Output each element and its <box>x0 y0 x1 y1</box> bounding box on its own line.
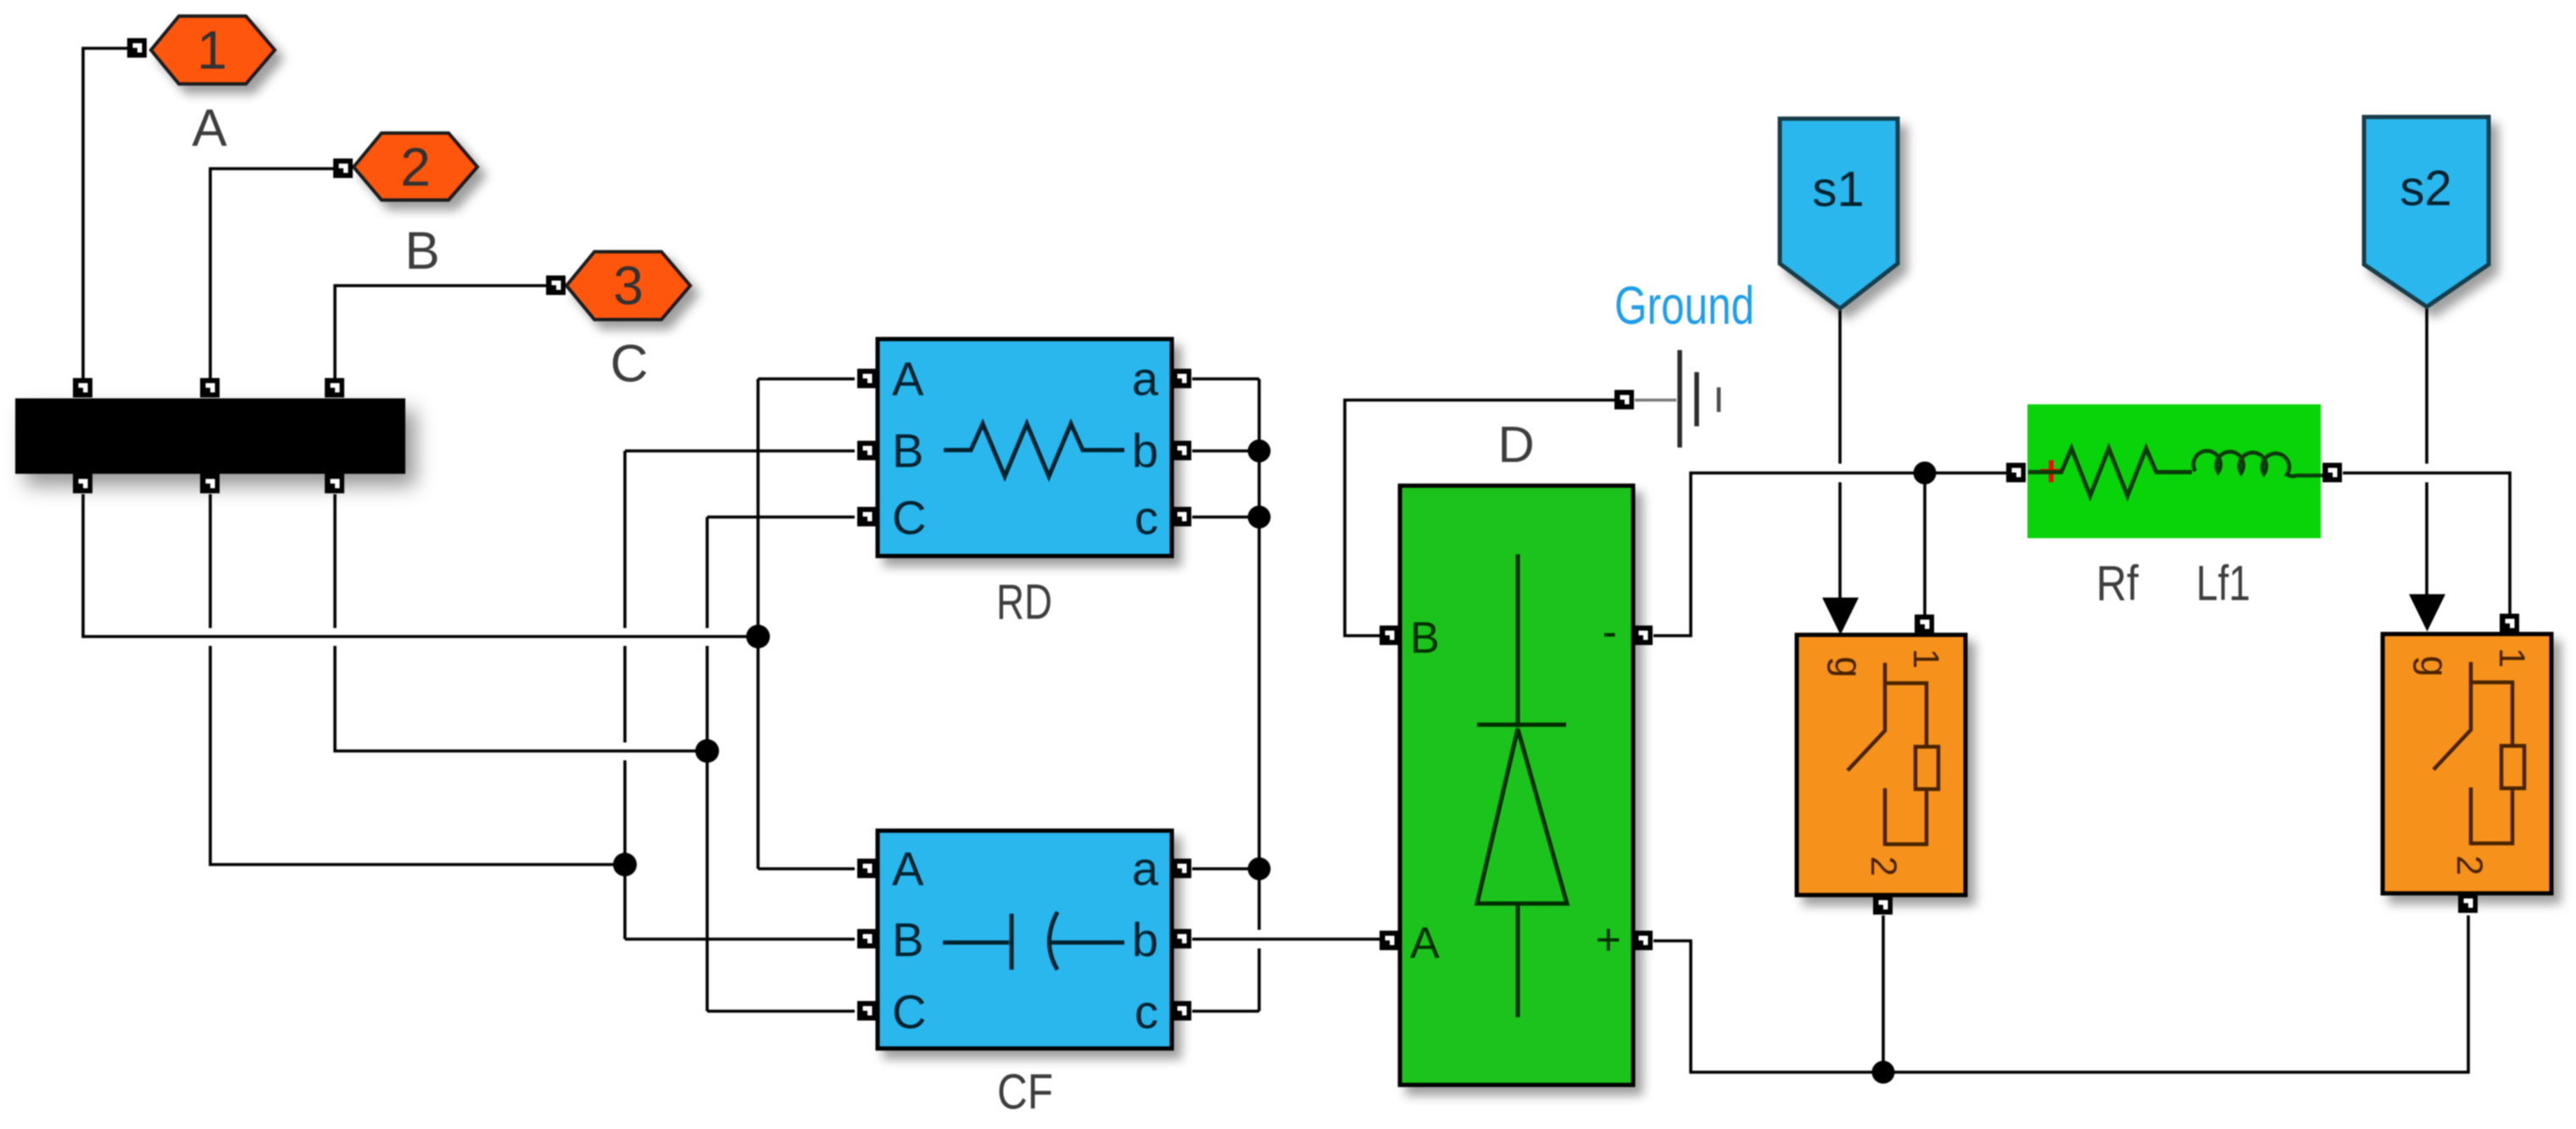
port CF c <box>1172 1001 1191 1021</box>
svg-text:C: C <box>892 491 926 544</box>
switch 1 <box>1797 635 1965 895</box>
resistor Rf symbol <box>2028 448 2192 496</box>
wire Rf output to switch2 port1 <box>2343 473 2510 614</box>
svg-text:A: A <box>892 842 924 895</box>
port bus top B <box>200 378 220 398</box>
port bus bottom C <box>325 474 344 493</box>
port RD C <box>857 507 877 526</box>
svg-text:-: - <box>1603 608 1617 657</box>
port ground <box>1614 390 1634 409</box>
switch 2 <box>2383 634 2551 893</box>
svg-text:b: b <box>1132 913 1158 966</box>
arrowhead into switch2 gate <box>2409 594 2445 631</box>
wire outport3 to bus phase C <box>335 286 546 378</box>
svg-text:Rf: Rf <box>2096 556 2139 611</box>
block Rf Lf1 <box>2027 404 2322 538</box>
port D plus <box>1633 931 1653 950</box>
wire switch1 port2 down to bottom run <box>1882 915 1885 1072</box>
port RD A <box>857 369 877 388</box>
wire outport2 to bus phase B <box>210 169 333 378</box>
svg-text:B: B <box>892 424 923 477</box>
port bus bottom A <box>73 474 92 493</box>
wire junction to switch1 port1 <box>1923 473 1926 615</box>
junction node RD.c output <box>1248 506 1271 529</box>
outport 1 hexagon <box>151 16 275 84</box>
port CF C <box>857 1001 877 1021</box>
junction node CF.a output <box>1248 858 1271 881</box>
svg-text:C: C <box>611 335 649 393</box>
port Rf right <box>2322 463 2342 482</box>
wire rail A to RD.A and CF.A <box>758 379 855 869</box>
wire bus bottom A feed <box>83 494 758 637</box>
wire outport1 to bus phase A <box>83 48 127 378</box>
junction node bus A rail <box>746 625 770 648</box>
svg-text:+: + <box>1596 915 1621 965</box>
port switch1 1 <box>1915 615 1934 634</box>
svg-text:g: g <box>1827 656 1871 677</box>
port CF b <box>1172 929 1191 948</box>
svg-text:A: A <box>192 99 227 158</box>
wire D.B to Ground <box>1345 400 1614 636</box>
svg-text:2: 2 <box>1863 856 1904 876</box>
diode symbol inside D <box>1477 554 1567 1017</box>
port D B <box>1380 626 1399 645</box>
wire s2 tag to switch2 gate <box>2425 307 2428 595</box>
port D minus <box>1633 626 1653 645</box>
port bus top A <box>73 378 92 398</box>
port switch2 1 <box>2500 614 2519 633</box>
svg-text:a: a <box>1132 352 1159 405</box>
svg-text:1: 1 <box>2491 648 2532 668</box>
svg-text:A: A <box>1410 919 1440 968</box>
outport 3 hexagon <box>566 252 690 320</box>
block RD <box>878 339 1172 556</box>
port RD c <box>1172 507 1191 526</box>
svg-text:1: 1 <box>1905 648 1946 669</box>
svg-text:b: b <box>1132 424 1158 477</box>
port Rf left <box>2006 463 2026 482</box>
svg-text:a: a <box>1132 842 1159 895</box>
port bus bottom B <box>200 474 220 493</box>
port CF a <box>1172 859 1191 878</box>
inductor Lf1 symbol <box>2194 451 2322 476</box>
svg-text:B: B <box>892 913 923 966</box>
svg-text:c: c <box>1135 491 1158 544</box>
ground symbol <box>1635 350 1719 448</box>
arrowhead into switch1 gate <box>1822 598 1859 635</box>
block D rectifier <box>1400 486 1633 1085</box>
resistor symbol inside RD <box>944 424 1124 476</box>
port RD a <box>1172 369 1191 388</box>
svg-text:CF: CF <box>997 1065 1053 1120</box>
svg-text:D: D <box>1497 416 1534 473</box>
svg-text:C: C <box>892 985 926 1038</box>
wire CF.b to D.A <box>1192 937 1380 941</box>
red plus polarity mark <box>2040 460 2062 482</box>
wire rail C to RD.C and CF.C <box>707 517 855 1011</box>
port RD B <box>857 441 877 460</box>
svg-text:c: c <box>1135 985 1158 1038</box>
wire RD outputs and CF outputs common rail <box>1192 379 1259 1011</box>
port RD b <box>1172 441 1191 460</box>
junction node switch1 port1 branch <box>1914 462 1937 485</box>
junction node bottom run <box>1872 1061 1895 1084</box>
block CF <box>878 831 1172 1048</box>
port switch2 2 <box>2458 893 2478 913</box>
svg-text:Lf1: Lf1 <box>2196 556 2250 611</box>
port outport3 <box>546 275 566 295</box>
junction node RD.b output <box>1248 440 1271 463</box>
svg-text:B: B <box>404 222 439 281</box>
port outport1 <box>127 38 147 58</box>
svg-text:B: B <box>1410 614 1440 663</box>
svg-text:s1: s1 <box>1812 162 1864 217</box>
port CF B <box>857 929 877 948</box>
bus bar <box>15 398 405 474</box>
port outport2 <box>333 159 353 178</box>
port D A <box>1380 931 1399 950</box>
tag s1 <box>1780 119 1898 309</box>
svg-text:2: 2 <box>2449 855 2490 876</box>
outport 2 hexagon <box>354 133 477 200</box>
wire s1 tag to switch1 gate <box>1838 309 1842 598</box>
svg-text:3: 3 <box>613 255 644 316</box>
svg-text:RD: RD <box>996 575 1052 630</box>
wire rail B to RD.B and CF.B <box>625 451 855 939</box>
wire D.minus to Rf input <box>1653 473 2006 636</box>
junction node bus B rail <box>613 853 637 876</box>
port bus top C <box>325 378 344 398</box>
tag s2 <box>2364 117 2489 307</box>
wire bus bottom B feed <box>210 494 625 865</box>
svg-text:g: g <box>2413 655 2456 676</box>
capacitor symbol inside CF <box>943 912 1124 970</box>
svg-text:Ground: Ground <box>1614 276 1754 336</box>
svg-text:A: A <box>892 352 924 405</box>
svg-text:2: 2 <box>400 136 431 197</box>
port switch1 2 <box>1873 895 1893 915</box>
junction node bus C rail <box>695 739 719 763</box>
wire bus bottom C feed <box>335 494 707 751</box>
svg-text:s2: s2 <box>2400 161 2451 216</box>
svg-text:1: 1 <box>197 19 227 81</box>
port CF A <box>857 859 877 878</box>
wire D.plus bottom run to switch2 port2 <box>1653 915 2468 1072</box>
